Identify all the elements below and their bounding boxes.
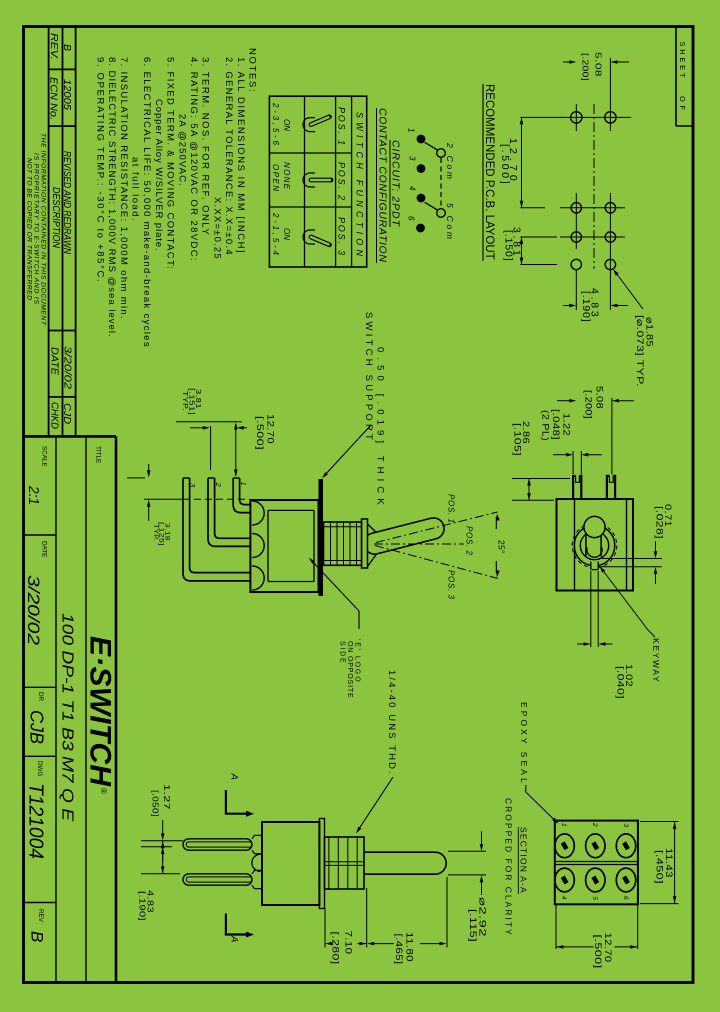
svg-text:REV: REV — [37, 909, 44, 923]
svg-text:[.280]: [.280] — [330, 932, 341, 965]
svg-text:POS. 1: POS. 1 — [447, 494, 456, 523]
svg-text:POS. 3: POS. 3 — [337, 217, 347, 255]
svg-text:2. GENERAL TOLERANCE: X.X=±0.4: 2. GENERAL TOLERANCE: X.X=±0.4 — [223, 57, 234, 255]
svg-text:12005: 12005 — [61, 79, 73, 110]
svg-text:8. DIELECTRIC STRENGTH: 1,000V: 8. DIELECTRIC STRENGTH: 1,000V RMS @sea … — [106, 57, 117, 337]
svg-text:6. ELECTRICAL LIFE: 50,000 mak: 6. ELECTRICAL LIFE: 50,000 make-and-brea… — [141, 57, 152, 347]
svg-text:ON: ON — [282, 228, 291, 240]
svg-text:NOTES:: NOTES: — [247, 48, 258, 92]
svg-text:ON: ON — [282, 119, 291, 131]
svg-text:IS PROPRIETARY TO E-SWITCH AND: IS PROPRIETARY TO E-SWITCH AND IS — [33, 153, 40, 304]
svg-text:4. RATING: 5A @120VAC OR 28VDC: 4. RATING: 5A @120VAC OR 28VDC: — [188, 57, 199, 261]
svg-text:[.048]: [.048] — [550, 409, 561, 440]
svg-text:REV.: REV. — [48, 33, 59, 60]
svg-text:SCALE: SCALE — [41, 446, 48, 467]
svg-text:KEYWAY: KEYWAY — [651, 638, 661, 682]
svg-text:POS. 2: POS. 2 — [465, 526, 474, 556]
svg-text:[.450]: [.450] — [654, 850, 665, 884]
svg-text:X.XX=±0.25: X.XX=±0.25 — [211, 197, 222, 259]
svg-text:TYP.: TYP. — [152, 524, 159, 541]
svg-text:6: 6 — [622, 896, 629, 900]
svg-text:[.115]: [.115] — [467, 909, 478, 942]
svg-text:DESCRIPTION: DESCRIPTION — [50, 187, 61, 249]
svg-text:T121004: T121004 — [25, 783, 47, 859]
svg-text:B: B — [61, 44, 73, 51]
svg-text:[.500]: [.500] — [592, 935, 603, 969]
svg-text:100 DP-1 T1 B3 M7 Q E: 100 DP-1 T1 B3 M7 Q E — [59, 613, 76, 821]
svg-text:[.190]: [.190] — [138, 891, 148, 921]
svg-text:1: 1 — [560, 823, 567, 827]
svg-text:3: 3 — [408, 156, 417, 161]
svg-text:2A @250VAC.: 2A @250VAC. — [176, 114, 187, 186]
svg-text:ECN No.: ECN No. — [48, 77, 59, 120]
svg-text:1: 1 — [239, 482, 248, 486]
svg-text:CJB: CJB — [27, 710, 47, 744]
svg-text:Copper Alloy W/SILVER plate.: Copper Alloy W/SILVER plate. — [153, 99, 164, 251]
svg-text:CROPPED FOR CLARITY: CROPPED FOR CLARITY — [504, 798, 514, 935]
svg-text:[.050]: [.050] — [151, 790, 161, 817]
svg-text:TYP.: TYP. — [181, 391, 188, 411]
svg-text:A: A — [229, 935, 240, 942]
svg-text:POS. 1: POS. 1 — [337, 107, 347, 145]
svg-text:2:1: 2:1 — [25, 485, 42, 505]
svg-text:3: 3 — [622, 824, 629, 828]
svg-text:®: ® — [99, 788, 108, 794]
svg-text:REVISED AND REDRAWN: REVISED AND REDRAWN — [61, 151, 73, 254]
svg-text:1: 1 — [407, 128, 416, 132]
svg-text:1.27: 1.27 — [162, 784, 172, 810]
svg-text:[.028]: [.028] — [654, 506, 665, 539]
svg-text:4: 4 — [408, 186, 417, 191]
svg-text:2 Com: 2 Com — [445, 142, 455, 179]
svg-text:DATE: DATE — [49, 347, 60, 375]
svg-text:E·SWITCH: E·SWITCH — [84, 636, 117, 787]
svg-text:5: 5 — [591, 896, 598, 900]
svg-text:CONTACT CONFIGURATION: CONTACT CONFIGURATION — [377, 108, 389, 262]
svg-text:EPOXY SEAL: EPOXY SEAL — [519, 702, 529, 783]
svg-text:5.08: 5.08 — [594, 386, 605, 409]
svg-text:[.040]: [.040] — [615, 666, 626, 699]
svg-text:DATE: DATE — [41, 541, 48, 557]
svg-text:2: 2 — [214, 482, 223, 488]
svg-text:[⌀.073] TYP.: [⌀.073] TYP. — [634, 315, 645, 387]
svg-text:SIDE: SIDE — [339, 641, 346, 663]
svg-text:3/20/02: 3/20/02 — [62, 346, 74, 389]
svg-text:3/20/02: 3/20/02 — [24, 575, 42, 645]
svg-text:6: 6 — [407, 216, 416, 221]
svg-text:DWG: DWG — [36, 761, 43, 776]
svg-text:TITLE: TITLE — [95, 446, 102, 463]
svg-text:2: 2 — [591, 822, 598, 827]
svg-text:[.500]: [.500] — [254, 416, 265, 450]
svg-text:NONE: NONE — [282, 162, 291, 190]
svg-text:5. FIXED TERM. & MOVING CONTAC: 5. FIXED TERM. & MOVING CONTACT: — [165, 57, 176, 269]
svg-text:B: B — [28, 931, 47, 942]
svg-text:DR: DR — [37, 692, 44, 702]
svg-text:ON OPPOSITE: ON OPPOSITE — [346, 641, 353, 698]
svg-text:3. TERM. NOS. FOR REF. ONLY: 3. TERM. NOS. FOR REF. ONLY — [200, 57, 211, 235]
svg-text:[.200]: [.200] — [583, 390, 594, 419]
svg-text:5.08: 5.08 — [594, 52, 604, 77]
svg-text:9. OPERATING TEMP.: -30°C to +: 9. OPERATING TEMP.: -30°C to +85°C. — [94, 57, 105, 282]
svg-text:POS. 3: POS. 3 — [447, 570, 456, 600]
svg-text:[.105]: [.105] — [512, 423, 523, 456]
svg-text:7. INSULATION RESISTANCE: 1,00: 7. INSULATION RESISTANCE: 1,000M ohm min… — [118, 57, 129, 319]
svg-text:1. ALL DIMENSIONS IN MM [INCH]: 1. ALL DIMENSIONS IN MM [INCH] — [235, 57, 246, 253]
svg-text:[.190]: [.190] — [580, 291, 592, 322]
svg-text:12.70: 12.70 — [265, 414, 276, 444]
svg-text:SECTION A-A: SECTION A-A — [519, 827, 529, 893]
svg-text:7.10: 7.10 — [343, 931, 354, 955]
svg-text:[.200]: [.200] — [581, 53, 591, 81]
svg-text:1.22: 1.22 — [561, 413, 572, 436]
svg-text:A: A — [229, 773, 240, 780]
svg-text:RECOMMENDED P.C.B. LAYOUT: RECOMMENDED P.C.B. LAYOUT — [483, 84, 495, 260]
svg-text:[.500]: [.500] — [499, 144, 511, 184]
svg-text:25°: 25° — [497, 540, 507, 554]
svg-text:4: 4 — [560, 896, 567, 900]
svg-text:11.80: 11.80 — [404, 932, 415, 962]
svg-text:(2 PL): (2 PL) — [540, 410, 551, 441]
svg-text:POS. 2: POS. 2 — [337, 162, 347, 200]
svg-text:[.150]: [.150] — [503, 230, 515, 261]
svg-text:CHKD: CHKD — [49, 402, 60, 429]
svg-text:[.465]: [.465] — [393, 934, 404, 965]
svg-text:CJD: CJD — [61, 403, 73, 424]
svg-text:NOT TO BE COPIED OR TRANSFERRE: NOT TO BE COPIED OR TRANSFERRED — [26, 158, 33, 300]
svg-text:CIRCUIT: 2PDT: CIRCUIT: 2PDT — [390, 140, 402, 228]
svg-text:OPEN: OPEN — [271, 164, 280, 191]
svg-text:'E' LOGO: 'E' LOGO — [354, 639, 361, 682]
svg-text:THE INFORMATION CONTAINED IN T: THE INFORMATION CONTAINED IN THIS DOCUME… — [40, 133, 47, 326]
